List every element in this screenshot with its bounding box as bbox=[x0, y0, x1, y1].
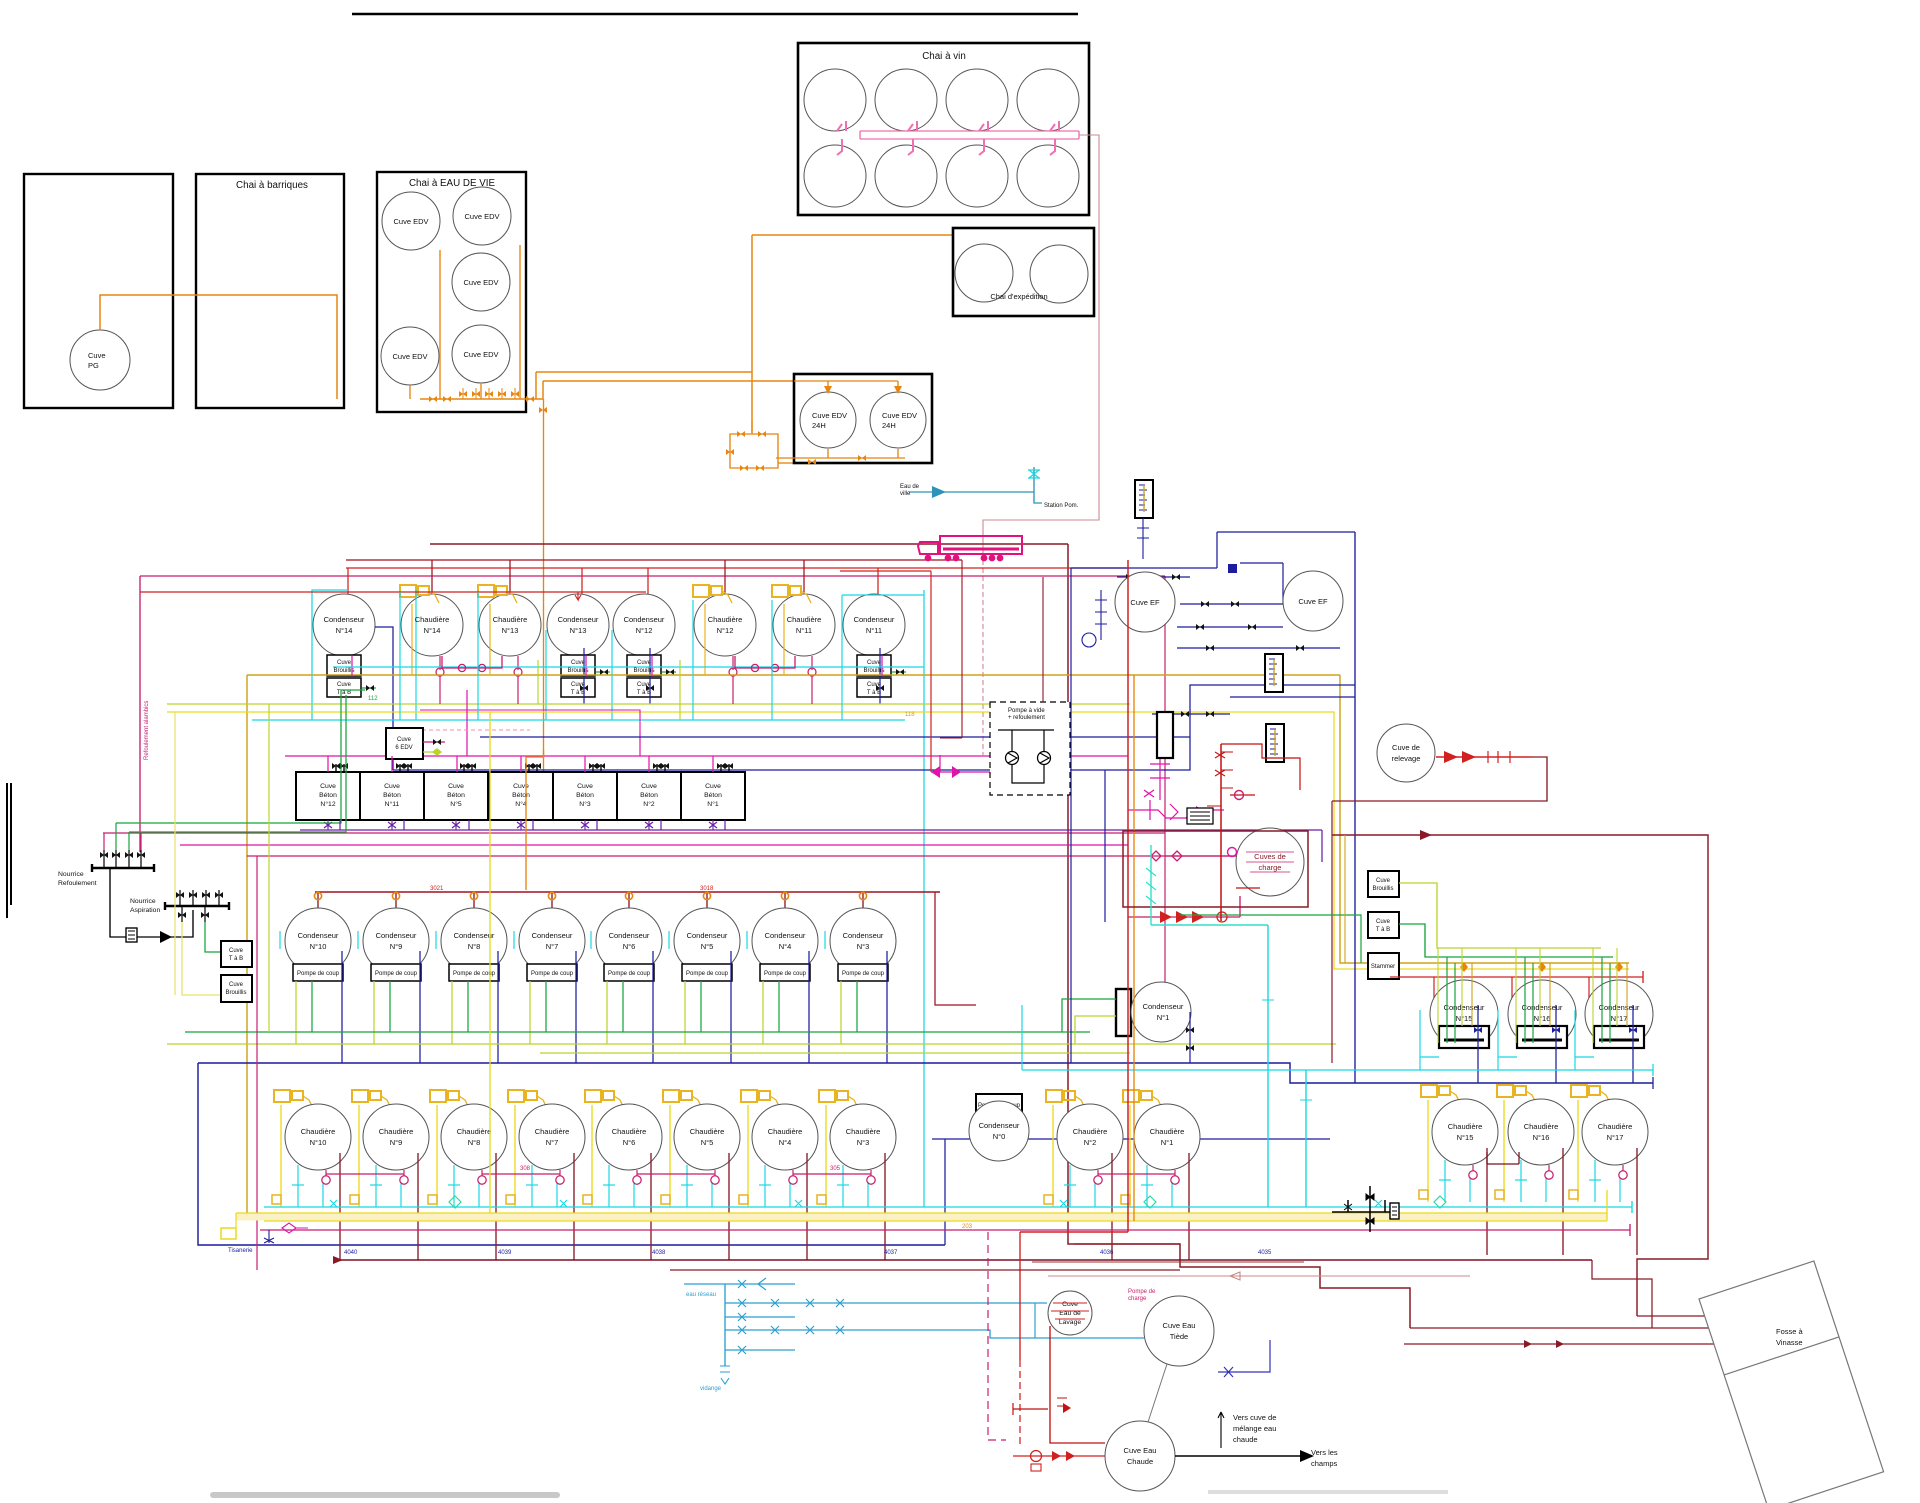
navy EF inner row2 bbox=[1180, 563, 1283, 604]
chaudiere N°6 assembly bbox=[583, 1090, 662, 1260]
svg-text:Cuve EDV: Cuve EDV bbox=[464, 212, 499, 221]
tank Cuve EDV 24H no1 bbox=[800, 392, 856, 448]
svg-text:Cuves de: Cuves de bbox=[1254, 852, 1286, 861]
svg-text:Chaudière: Chaudière bbox=[379, 1127, 414, 1136]
svg-text:N°14: N°14 bbox=[336, 626, 353, 635]
cyan top link bbox=[842, 594, 924, 596]
svg-text:Condenseur: Condenseur bbox=[1599, 1003, 1640, 1012]
bus purple under Beton bbox=[300, 829, 1322, 831]
wire orange run to 24H box bbox=[543, 381, 794, 399]
svg-text:4037: 4037 bbox=[884, 1250, 898, 1256]
valve cluster on EDV bus bbox=[429, 396, 437, 402]
steel branch 5 bbox=[725, 1349, 795, 1351]
svg-text:Vinasse: Vinasse bbox=[1776, 1338, 1803, 1347]
svg-text:4038: 4038 bbox=[652, 1250, 666, 1256]
green drops N°17 bbox=[1602, 957, 1610, 1043]
arrow drop expedition tank 1 bbox=[980, 235, 988, 244]
pump symbol bbox=[126, 928, 137, 942]
condenseur N°10 assembly bbox=[280, 892, 351, 1063]
svg-text:N°15: N°15 bbox=[1456, 1014, 1473, 1023]
black pump run nourrice bbox=[110, 868, 193, 937]
wire orange from Cuve PG through barriques bbox=[100, 295, 337, 399]
orange knot manifold bbox=[730, 434, 778, 468]
yellow bottom bus 1 bbox=[236, 1212, 1607, 1214]
magenta riser 2 bbox=[639, 732, 641, 756]
svg-text:Refoulement alambics: Refoulement alambics bbox=[144, 701, 150, 760]
condenseur N°15 right bbox=[1433, 977, 1435, 1000]
condenseur N°3 assembly bbox=[825, 892, 896, 1063]
svg-text:6 EDV: 6 EDV bbox=[395, 745, 412, 751]
tank Cuve Beton N°3 bbox=[553, 772, 617, 820]
svg-text:Lavage: Lavage bbox=[1059, 1319, 1082, 1326]
svg-text:Cuve Eau: Cuve Eau bbox=[1124, 1446, 1157, 1455]
black outlet vers les champs bbox=[1175, 1455, 1300, 1457]
cyan vertical 1268 bbox=[1267, 925, 1269, 1207]
red main vertical distillery bbox=[1127, 560, 1129, 1232]
condenseur N°17 right bbox=[1588, 977, 1590, 1000]
crimson horizontal mid right bbox=[940, 560, 962, 738]
chaudiere N°5 assembly bbox=[661, 1090, 740, 1260]
pink manifold arrows bbox=[931, 771, 990, 773]
svg-text:vidange: vidange bbox=[700, 1386, 722, 1392]
pump crimson under chaudiere N14 bbox=[439, 656, 441, 670]
tank Chaudiere N11 bbox=[773, 594, 835, 656]
chartreuse drops N°16 bbox=[1516, 948, 1540, 1043]
green elbow long 2 bbox=[129, 695, 346, 832]
svg-text:N°10: N°10 bbox=[310, 1138, 327, 1147]
svg-text:Nourrice: Nourrice bbox=[130, 898, 156, 905]
bus cyan mid bbox=[252, 719, 905, 721]
svg-text:Chaudière: Chaudière bbox=[1073, 1127, 1108, 1136]
svg-text:118: 118 bbox=[905, 712, 915, 718]
purple valve beton 7 bbox=[712, 820, 714, 830]
svg-text:Condenseur: Condenseur bbox=[624, 615, 665, 624]
svg-text:Condenseur: Condenseur bbox=[324, 615, 365, 624]
pompe box N°16 bbox=[1517, 1026, 1567, 1048]
red valve pair mid bbox=[1057, 1398, 1067, 1406]
green teal diamonds on cyan bus bbox=[449, 1196, 1446, 1208]
svg-text:champs: champs bbox=[1311, 1459, 1338, 1468]
svg-text:PG: PG bbox=[88, 361, 99, 370]
cyan loop right side bbox=[415, 590, 417, 720]
svg-text:N°1: N°1 bbox=[1161, 1138, 1174, 1147]
svg-text:mélange eau: mélange eau bbox=[1233, 1424, 1276, 1433]
tank Cuve Eau de Lavage bbox=[1048, 1291, 1092, 1335]
red vertical from bus bbox=[1019, 1232, 1021, 1360]
tank Cuve Eau Chaude bbox=[1105, 1421, 1175, 1491]
wire purple right descent bbox=[1321, 830, 1323, 862]
chaudiere N°15 right bbox=[1419, 1085, 1498, 1255]
purple valve beton 4 bbox=[520, 820, 522, 830]
cyan bus upper mid bbox=[333, 666, 924, 668]
navy elbow condenseur N14 to loop bbox=[375, 627, 393, 770]
svg-text:N°11: N°11 bbox=[866, 626, 882, 635]
dark red return loop bbox=[1332, 757, 1547, 801]
yellow bottom bus 2 bbox=[264, 1190, 1607, 1221]
wire orange EDV drops bottom tanks bbox=[410, 383, 481, 399]
lyellow long vertical bbox=[174, 712, 176, 995]
wire orange EDV collector bus bbox=[420, 398, 543, 400]
purple valve beton 5 bbox=[584, 820, 586, 830]
crimson piping to charge bbox=[1165, 855, 1236, 857]
pump circle B bbox=[1038, 752, 1051, 765]
svg-text:Condenseur: Condenseur bbox=[843, 931, 884, 940]
valve pair on top of Beton N°12 bbox=[336, 764, 344, 772]
tank Cuve de relevage bbox=[1377, 724, 1435, 782]
red vertical feeder 1221 bbox=[1220, 744, 1222, 921]
navy center drop N°17 bbox=[1632, 1005, 1634, 1083]
svg-text:203: 203 bbox=[962, 1224, 973, 1230]
valve pair on top of Beton N°4 bbox=[529, 764, 537, 772]
condenseur N°6 assembly bbox=[591, 892, 662, 1063]
maroon feed fosse line3 bbox=[1404, 1343, 1753, 1345]
svg-text:Condenseur: Condenseur bbox=[376, 931, 417, 940]
svg-text:N°13: N°13 bbox=[502, 626, 519, 635]
tank Chaudiere N12 bbox=[694, 594, 756, 656]
yellow band fill bbox=[236, 1214, 1607, 1221]
svg-text:Stammer: Stammer bbox=[1371, 964, 1395, 970]
svg-text:4039: 4039 bbox=[498, 1250, 512, 1256]
red discharge arrows bbox=[1436, 756, 1532, 758]
refoulement valve 104 bbox=[103, 850, 105, 868]
crimson dashed vertical left bbox=[988, 1232, 1006, 1440]
svg-text:N°12: N°12 bbox=[636, 626, 653, 635]
svg-text:Vers cuve de: Vers cuve de bbox=[1233, 1413, 1276, 1422]
maroon arrow on loop bbox=[1420, 830, 1432, 840]
svg-text:Chaudière: Chaudière bbox=[846, 1127, 881, 1136]
wire mustard to right section bbox=[1340, 675, 1629, 963]
purple verticals under beton boxes bbox=[340, 820, 725, 830]
svg-text:Condenseur: Condenseur bbox=[854, 615, 895, 624]
yellow long vertical 490 bbox=[489, 712, 491, 1213]
fosse a vinasse rotated basin bbox=[1699, 1261, 1884, 1503]
svg-text:N°1: N°1 bbox=[707, 800, 719, 808]
pink collector bus chai à vin bbox=[860, 131, 1079, 139]
svg-text:Cuve: Cuve bbox=[384, 783, 400, 790]
cyan C loop N°15 bbox=[1420, 1010, 1439, 1070]
svg-text:Cuve: Cuve bbox=[88, 351, 106, 360]
mustard drop N°15 bbox=[1471, 963, 1473, 1026]
building box left bbox=[24, 174, 173, 408]
svg-text:Condenseur: Condenseur bbox=[454, 931, 495, 940]
maroon rect loop around cuves de charge bbox=[1123, 831, 1308, 907]
svg-text:Chaudière: Chaudière bbox=[768, 1127, 803, 1136]
wire orange EDV riser left column bbox=[439, 250, 441, 399]
valve pair on top of Beton N°5 bbox=[464, 764, 472, 772]
svg-text:24H: 24H bbox=[882, 421, 896, 430]
svg-text:N°11: N°11 bbox=[796, 626, 812, 635]
tank Cuve Beton N°5 bbox=[424, 772, 488, 820]
vin tank r1c4 bbox=[1017, 69, 1079, 131]
svg-text:N°16: N°16 bbox=[1534, 1014, 1551, 1023]
aspiration valve 193 bbox=[192, 890, 194, 906]
navy loop lower to EF bbox=[393, 685, 1355, 770]
svg-text:Chaudière: Chaudière bbox=[493, 615, 528, 624]
cyan C loop N°17 bbox=[1575, 1010, 1594, 1070]
navy center drop N°15 bbox=[1477, 1005, 1479, 1083]
navy risers condenseurs 13 12 11 bbox=[584, 648, 880, 704]
svg-text:Béton: Béton bbox=[576, 792, 594, 799]
bus chartreuse harvest 2 bbox=[540, 1052, 1130, 1054]
chaudiere N°9 assembly bbox=[350, 1090, 429, 1260]
navy EF link row4 bbox=[1177, 647, 1340, 649]
svg-text:Béton: Béton bbox=[383, 792, 401, 799]
green elbow long 1 bbox=[116, 690, 365, 823]
svg-text:Pompe à vide: Pompe à vide bbox=[1008, 708, 1045, 714]
gray diagonal tiede-chaude bbox=[1148, 1364, 1167, 1422]
mustard vertical right of charge bbox=[1344, 835, 1346, 963]
gold symbol chaudiere N14 bbox=[400, 585, 439, 603]
red pump bottom bbox=[1031, 1451, 1042, 1462]
navy valve pair right of tiede bbox=[1218, 1367, 1254, 1377]
tank Condenseur N12 bbox=[613, 594, 675, 656]
magenta zigzag bottom left bbox=[282, 1223, 308, 1233]
crimson link pair 1 bbox=[326, 1173, 404, 1175]
bus green harvest bbox=[185, 1031, 1090, 1033]
gold vertical drops row1 chaudieres bbox=[412, 604, 784, 675]
svg-text:Condenseur: Condenseur bbox=[558, 615, 599, 624]
svg-text:4040: 4040 bbox=[344, 1250, 358, 1256]
thermometer gauge 1 bbox=[1135, 480, 1153, 518]
black box stack under condenseur N12 bbox=[627, 655, 661, 697]
magenta riser 1 bbox=[466, 690, 468, 756]
cyan bus right bbox=[1022, 1064, 1653, 1076]
svg-text:Chaudière: Chaudière bbox=[690, 1127, 725, 1136]
green drop to cuve box bbox=[205, 922, 221, 952]
svg-text:Cuve: Cuve bbox=[705, 783, 721, 790]
svg-text:N°10: N°10 bbox=[310, 942, 327, 951]
svg-text:Station Pom.: Station Pom. bbox=[1044, 503, 1079, 509]
svg-text:Cuve EDV: Cuve EDV bbox=[882, 411, 917, 420]
vin tank r2c3 bbox=[946, 145, 1008, 207]
svg-text:Chaudière: Chaudière bbox=[787, 615, 822, 624]
svg-text:Chai à barriques: Chai à barriques bbox=[236, 180, 308, 191]
black box pompe over condenseur N2 bbox=[976, 1094, 1022, 1115]
chartreuse feed right bbox=[1399, 883, 1601, 948]
steel bottom arrow bbox=[720, 1366, 730, 1384]
check valve bbox=[160, 931, 172, 943]
svg-text:Chai à vin: Chai à vin bbox=[922, 51, 966, 62]
purple valve beton 6 bbox=[648, 820, 650, 830]
tank Cuve EDV 4 bbox=[381, 327, 439, 385]
maroon bus 1270 partial bbox=[670, 1269, 1180, 1271]
pump crimson under chaudiere N11 bbox=[811, 656, 813, 670]
aspiration drop valves bbox=[182, 906, 205, 922]
tank Cuve PG bbox=[70, 330, 130, 390]
tank Cuve EDV 3 bbox=[452, 253, 510, 311]
wire orange knot to 24H bottom bus bbox=[778, 462, 794, 464]
riser darkred chaudiere N14 bbox=[432, 560, 804, 596]
navy bus through chaudieres bbox=[932, 1138, 1330, 1140]
red side valves on 1221 bbox=[1207, 752, 1233, 806]
tank Chaudiere N14 bbox=[401, 594, 463, 656]
black valve assembly mid-right bbox=[1332, 1186, 1392, 1232]
svg-text:Condenseur: Condenseur bbox=[298, 931, 339, 940]
cyan drop left of bus bbox=[1021, 1005, 1023, 1070]
green drops N°15 bbox=[1447, 957, 1455, 1043]
green drops N°16 bbox=[1525, 957, 1533, 1043]
chaudiere N°4 assembly bbox=[739, 1090, 818, 1260]
svg-text:Brouillis: Brouillis bbox=[1372, 886, 1393, 892]
tank Cuves de charge bbox=[1236, 828, 1304, 896]
navy filled square bbox=[1228, 564, 1237, 573]
svg-text:Béton: Béton bbox=[512, 792, 530, 799]
crimson link pair N2 N1 bbox=[1098, 1173, 1175, 1175]
svg-text:Aspiration: Aspiration bbox=[130, 907, 160, 914]
orange vertical distillery bbox=[1133, 675, 1135, 1221]
tank Chaudiere N1 mid bbox=[1121, 1090, 1200, 1260]
svg-text:4035: 4035 bbox=[1258, 1250, 1272, 1256]
aspiration valve 219 bbox=[218, 890, 220, 906]
svg-text:305: 305 bbox=[830, 1166, 841, 1172]
svg-text:Chaudière: Chaudière bbox=[612, 1127, 647, 1136]
bus dark red condenser row feed bbox=[315, 891, 940, 893]
gold symbol chaudiere N13 bbox=[478, 585, 517, 603]
maroon drop from crimson bus bbox=[1042, 577, 1044, 702]
pink dashed link bbox=[387, 729, 530, 731]
svg-text:N°3: N°3 bbox=[579, 800, 591, 808]
cyan C loop N°16 bbox=[1498, 1010, 1517, 1070]
purple valve beton 2 bbox=[391, 820, 393, 830]
small box Cuve EDV mid bbox=[386, 728, 423, 759]
steel manifold spine bbox=[724, 1284, 726, 1366]
navy drop mid bbox=[1104, 770, 1106, 922]
orange jog and extension below beton bbox=[526, 750, 544, 890]
condenseur N°7 assembly bbox=[514, 892, 585, 1063]
svg-text:Cuve: Cuve bbox=[229, 982, 244, 988]
valve pair on top of Beton N°2 bbox=[657, 764, 665, 772]
gray smear bottom bbox=[210, 1492, 560, 1498]
vin tank r1c2 bbox=[875, 69, 937, 131]
svg-text:Béton: Béton bbox=[447, 792, 465, 799]
svg-text:N°3: N°3 bbox=[857, 942, 870, 951]
green bowtie near cond N13 bbox=[596, 671, 610, 673]
svg-text:N°7: N°7 bbox=[546, 1138, 559, 1147]
cyan vertical 1306 bbox=[1305, 1070, 1307, 1207]
svg-text:Cuve EDV: Cuve EDV bbox=[812, 411, 847, 420]
tank Cuve EDV 1 bbox=[382, 192, 440, 250]
svg-text:Condenseur: Condenseur bbox=[1143, 1002, 1184, 1011]
slim black gauge bbox=[1157, 712, 1173, 758]
black box stack under condenseur N11 bbox=[857, 655, 891, 697]
bus mustard mid bbox=[247, 674, 1340, 676]
red lavage to chaude pipe bbox=[1050, 1326, 1105, 1443]
svg-text:Cuve: Cuve bbox=[1376, 878, 1391, 884]
mustard drop N°16 bbox=[1549, 963, 1551, 1026]
green bowtie near cond N11 bbox=[892, 671, 906, 673]
svg-text:Cuve EDV: Cuve EDV bbox=[393, 217, 428, 226]
refoulement valve 141 bbox=[140, 850, 142, 868]
cyan long vertical right of rows bbox=[923, 590, 925, 1207]
svg-text:Béton: Béton bbox=[319, 792, 337, 799]
chaudiere N°10 assembly bbox=[272, 1090, 351, 1260]
svg-text:Condenseur: Condenseur bbox=[1444, 1003, 1485, 1012]
thin maroon line bottom 1 bbox=[1032, 1261, 1304, 1263]
svg-text:chaude: chaude bbox=[1233, 1435, 1258, 1444]
tank Condenseur N14 bbox=[313, 594, 375, 656]
box Cuve T a B right bbox=[1368, 912, 1399, 938]
navy bottom loop EF bbox=[1230, 696, 1355, 698]
svg-text:Condenseur: Condenseur bbox=[1522, 1003, 1563, 1012]
bus crimson low bbox=[247, 855, 1236, 857]
pink risers row1 condensers bbox=[352, 656, 882, 675]
chartreuse diamond below box bbox=[423, 751, 441, 753]
teal arrow bbox=[932, 486, 946, 498]
svg-text:Nourrice: Nourrice bbox=[58, 871, 84, 878]
gold symbol chaudiere N11 bbox=[772, 585, 811, 603]
svg-text:3018: 3018 bbox=[700, 886, 714, 892]
svg-text:N°6: N°6 bbox=[623, 1138, 636, 1147]
svg-text:Cuve EDV: Cuve EDV bbox=[392, 352, 427, 361]
wire dark red bend to condenseur N0 bbox=[935, 892, 976, 1005]
vin tank r2c2 bbox=[875, 145, 937, 207]
pompe box N°17 bbox=[1594, 1026, 1644, 1048]
svg-text:Refoulement: Refoulement bbox=[58, 880, 97, 887]
cyan riser condenseur N13 bbox=[545, 630, 547, 720]
svg-text:N°1: N°1 bbox=[1157, 1013, 1170, 1022]
tank Condenseur N2 mid bbox=[969, 1101, 1029, 1161]
crimson diamonds on bus bbox=[1151, 851, 1182, 861]
aspiration valve 180 bbox=[179, 890, 181, 906]
aspiration valve 206 bbox=[205, 890, 207, 906]
navy small valve bottom left bbox=[264, 1230, 274, 1243]
svg-text:N°6: N°6 bbox=[623, 942, 636, 951]
magenta stub top bbox=[420, 710, 640, 732]
svg-text:4036: 4036 bbox=[1100, 1250, 1114, 1256]
chartreuse feed condenseur N1 bbox=[1075, 1016, 1116, 1044]
bus chartreuse mid bbox=[167, 703, 1130, 705]
chaudiere N°16 right bbox=[1495, 1085, 1574, 1255]
chartreuse drops N°15 bbox=[1438, 948, 1462, 1043]
teal water supply line bbox=[909, 467, 1042, 503]
svg-text:Cuve: Cuve bbox=[229, 948, 244, 954]
svg-text:Chaudière: Chaudière bbox=[1524, 1122, 1559, 1131]
crimson link pair 4 bbox=[793, 1173, 871, 1175]
svg-text:24H: 24H bbox=[812, 421, 826, 430]
dashed pump box bbox=[990, 702, 1070, 795]
svg-text:N°2: N°2 bbox=[643, 800, 655, 808]
steel valves bbox=[738, 1280, 746, 1288]
svg-text:N°2: N°2 bbox=[1084, 1138, 1097, 1147]
bus dark red top B bbox=[346, 559, 962, 561]
svg-text:Eau de: Eau de bbox=[900, 484, 920, 490]
tank Chaudiere N2 mid bbox=[1044, 1090, 1123, 1260]
navy vertical below tanker corner bbox=[1070, 568, 1072, 1063]
svg-text:Béton: Béton bbox=[640, 792, 658, 799]
red pump circle bbox=[1217, 912, 1227, 922]
pink taps bottom row bbox=[837, 139, 1055, 155]
box Cuve Brouillis right bbox=[1368, 871, 1399, 897]
cyan elbow condenseur N14 bbox=[312, 590, 348, 720]
svg-text:Condenseur: Condenseur bbox=[979, 1121, 1020, 1130]
green bowtie near cond N14 bbox=[362, 687, 376, 689]
navy frame left and bottom bbox=[198, 1063, 945, 1245]
svg-text:N°5: N°5 bbox=[701, 1138, 714, 1147]
navy small circle bbox=[1082, 633, 1096, 647]
tank Cuve EDV 5 bbox=[452, 325, 510, 383]
svg-text:N°9: N°9 bbox=[390, 1138, 403, 1147]
navy bottom row valves bbox=[1152, 713, 1230, 715]
magenta arrows bbox=[1196, 806, 1206, 818]
black box stack under condenseur N13 bbox=[561, 655, 595, 697]
svg-text:charge: charge bbox=[1259, 863, 1282, 872]
red elbow to bottom bbox=[1020, 1231, 1128, 1233]
gold symbol chaudiere N12 bbox=[693, 585, 732, 603]
wire orange 24H inlet arrows bbox=[794, 381, 898, 388]
svg-text:N°17: N°17 bbox=[1607, 1133, 1624, 1142]
svg-text:Cuve: Cuve bbox=[577, 783, 593, 790]
svg-text:Chaudière: Chaudière bbox=[708, 615, 743, 624]
